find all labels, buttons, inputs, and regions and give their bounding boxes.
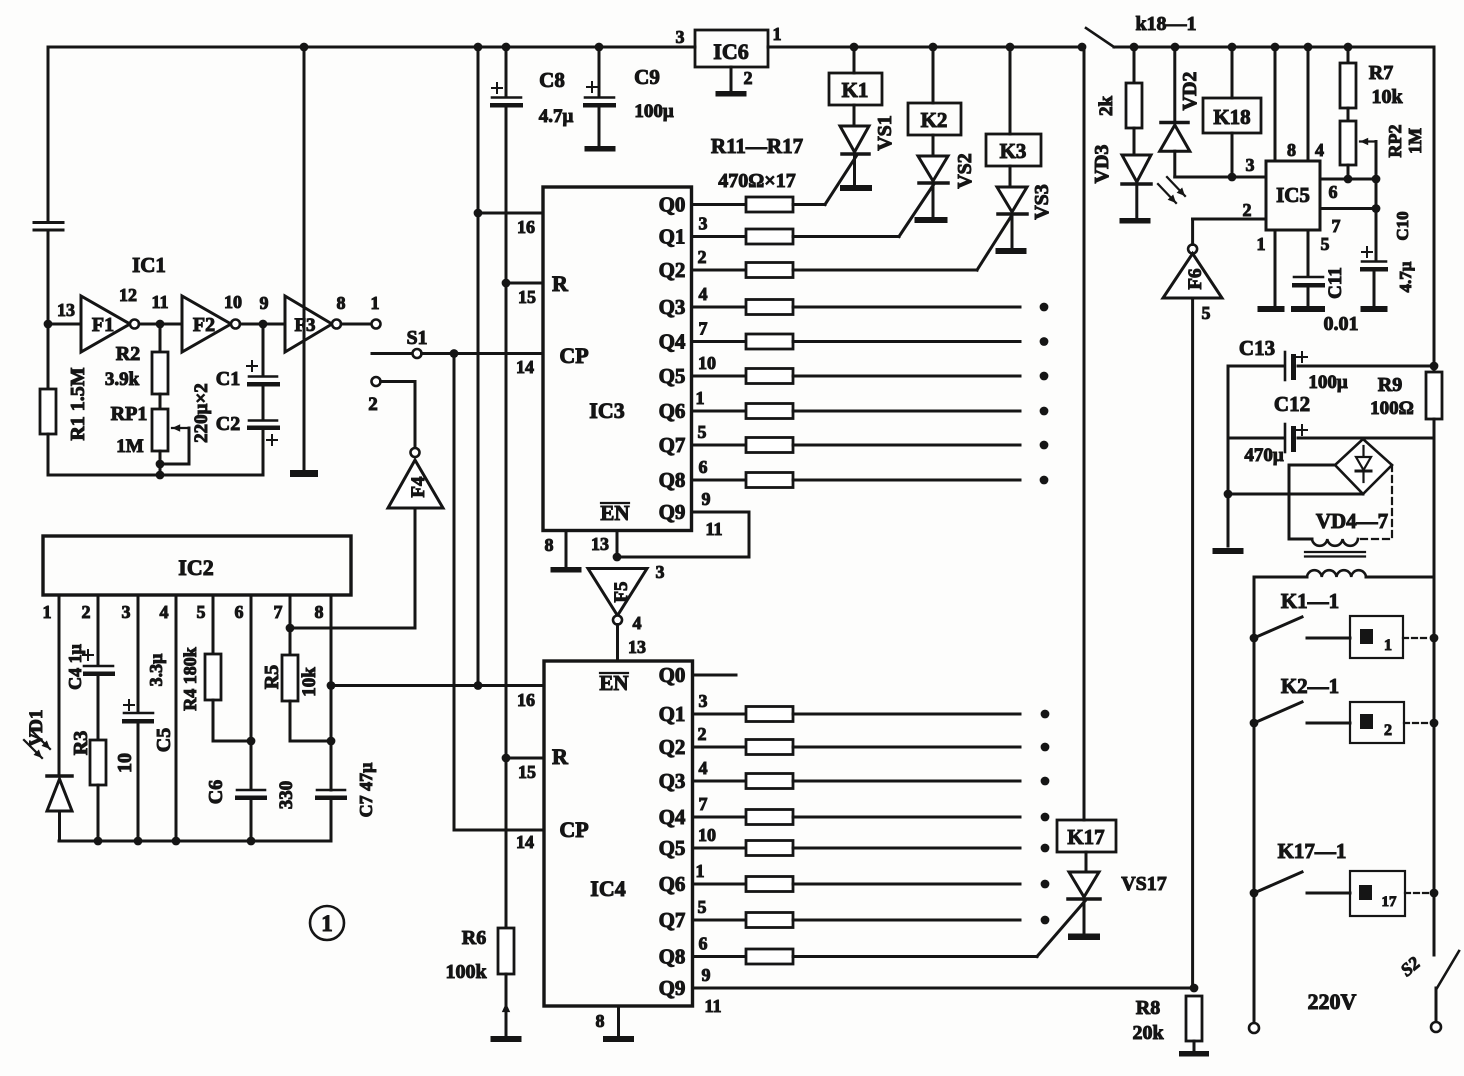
resistor output IC4 Q6	[746, 877, 793, 892]
svg-text:7: 7	[1332, 216, 1341, 236]
C13 plus	[1297, 356, 1307, 358]
wire reset line x506	[505, 108, 508, 929]
terminal mains left	[1249, 1023, 1259, 1033]
svg-text:4.7μ: 4.7μ	[1396, 261, 1415, 292]
wire IC3 pin16	[478, 212, 543, 215]
C2 plus	[267, 439, 277, 441]
svg-text:VS3: VS3	[1031, 184, 1053, 220]
capacitor C12	[1284, 424, 1287, 452]
node top bus switch k18-1 left	[1078, 43, 1087, 52]
svg-text:4: 4	[633, 613, 642, 633]
svg-text:2: 2	[698, 724, 707, 744]
capacitor C10	[1362, 260, 1386, 263]
svg-text:2: 2	[744, 68, 753, 88]
switch S1	[372, 352, 412, 355]
svg-text:C11: C11	[1325, 267, 1346, 299]
thyristor VS17	[1085, 852, 1088, 872]
terminal mains right	[1431, 1022, 1441, 1032]
wire IC2 pin8	[330, 595, 333, 790]
inverter F4	[411, 448, 420, 457]
svg-text:Q5: Q5	[659, 836, 686, 860]
C9 plus	[587, 86, 597, 88]
svg-text:C8: C8	[539, 68, 565, 92]
wire IC4 Q7 stub	[693, 919, 747, 922]
wire IC4 Q1 stub	[693, 713, 747, 716]
wire to R1	[47, 324, 50, 389]
load box 17	[1350, 871, 1405, 916]
svg-text:7: 7	[699, 794, 708, 814]
diode VD3	[1133, 128, 1136, 155]
terminal 1 of S1	[372, 320, 381, 329]
figure number 1	[310, 906, 344, 940]
wire IC4 Q4 long	[793, 816, 1020, 819]
resistor R17 output Q6	[746, 404, 793, 419]
svg-text:F6: F6	[1185, 268, 1206, 289]
node continuation dot Q1 IC4	[1041, 710, 1050, 719]
wire +V top bus left segment	[48, 46, 695, 49]
svg-text:330: 330	[276, 781, 297, 810]
svg-text:Q4: Q4	[659, 805, 686, 829]
svg-text:k18—1: k18—1	[1135, 13, 1196, 35]
node wiper pin6	[1372, 175, 1381, 184]
wire R8 ground	[1193, 1041, 1196, 1051]
svg-text:11: 11	[704, 996, 721, 1016]
terminal 2 of S1	[372, 377, 381, 386]
svg-text:Q2: Q2	[659, 735, 686, 759]
svg-text:13: 13	[591, 534, 609, 554]
svg-text:1: 1	[696, 861, 705, 881]
wire IC4 Q6 stub	[693, 883, 747, 886]
IC5 pin7 wire	[1320, 207, 1377, 210]
svg-text:14: 14	[516, 832, 534, 852]
svg-text:5: 5	[698, 897, 707, 917]
svg-text:1M: 1M	[116, 436, 144, 457]
svg-text:3: 3	[122, 602, 131, 622]
svg-text:VD4—7: VD4—7	[1316, 509, 1388, 533]
capacitor C9	[598, 47, 601, 97]
svg-text:6: 6	[699, 457, 708, 477]
node 9	[259, 320, 268, 329]
capacitor C11	[1294, 276, 1323, 279]
svg-text:1: 1	[321, 911, 333, 936]
wire terminal2 to F4	[381, 380, 416, 383]
node 11	[156, 320, 165, 329]
svg-text:470μ: 470μ	[1244, 445, 1284, 466]
wire R1 bottom	[47, 434, 50, 475]
wire IC3 Q4 long	[793, 340, 1020, 343]
wire C12	[1228, 437, 1283, 440]
svg-text:K1—1: K1—1	[1281, 589, 1339, 613]
svg-text:Q0: Q0	[659, 663, 686, 687]
resistor output IC4 Q4	[746, 810, 793, 825]
node continuation dot Q5 IC3	[1040, 372, 1049, 381]
node RP1 wiper join	[156, 460, 165, 469]
capacitor C6	[237, 789, 265, 792]
capacitor C8	[505, 47, 508, 97]
svg-text:Q3: Q3	[659, 769, 686, 793]
svg-text:5: 5	[1321, 234, 1330, 254]
svg-text:Q4: Q4	[659, 330, 686, 354]
load box 2	[1350, 702, 1404, 743]
wire IC2 pin7	[289, 595, 292, 655]
wire IC3 Q0 stub	[692, 203, 747, 206]
svg-text:F1: F1	[92, 314, 114, 336]
svg-text:10: 10	[698, 825, 716, 845]
node R4 join pin6	[247, 737, 256, 746]
wire +V top bus right segment	[768, 46, 1084, 49]
switch S2	[1437, 951, 1459, 988]
wire IC3 Q6 long	[793, 410, 1020, 413]
node pin7 F4 wire	[286, 624, 295, 633]
svg-text:Q8: Q8	[659, 945, 686, 969]
svg-text:2: 2	[368, 394, 378, 415]
svg-text:C6: C6	[205, 780, 227, 804]
svg-text:Q7: Q7	[659, 433, 686, 457]
wire oscillator bottom	[48, 474, 263, 477]
wire IC4 Q3 stub	[693, 780, 747, 783]
node continuation dot Q4 IC4	[1041, 813, 1050, 822]
RP1 wiper	[172, 427, 189, 429]
node reset IC3 pin15	[502, 279, 511, 288]
wire IC3 Q7 stub	[692, 444, 747, 447]
svg-text:16: 16	[517, 217, 535, 237]
wire IC3 Q6 stub	[692, 410, 747, 413]
svg-text:R2: R2	[116, 343, 140, 365]
svg-text:4.7μ: 4.7μ	[539, 106, 574, 127]
RP2 wiper arrow	[1360, 140, 1376, 142]
wire IC3 Q1 stub	[692, 235, 747, 238]
svg-text:S1: S1	[406, 327, 427, 349]
resistor output IC4 Q2	[746, 740, 793, 755]
wire IC2 pin2	[97, 595, 100, 665]
wire R6 to ground	[505, 974, 508, 1036]
IC6 pin 2 wire	[730, 67, 733, 91]
node top bus x599	[595, 43, 604, 52]
wire F1 out	[139, 323, 182, 326]
svg-text:K3: K3	[1000, 139, 1027, 163]
svg-text:Q7: Q7	[659, 908, 686, 932]
svg-text:12: 12	[119, 285, 137, 305]
svg-text:R5: R5	[261, 665, 283, 689]
wire IC3 Q7 long	[793, 444, 1020, 447]
node R5 join pin8	[327, 737, 336, 746]
svg-text:8: 8	[337, 293, 346, 313]
resistor R9	[1426, 372, 1442, 419]
svg-text:2: 2	[698, 247, 707, 267]
svg-text:13: 13	[57, 300, 75, 320]
svg-text:EN: EN	[600, 501, 629, 525]
ground VS1	[840, 185, 872, 191]
svg-text:10: 10	[698, 353, 716, 373]
wire IC3 pin13 stub	[616, 531, 619, 558]
C5 plus	[124, 704, 134, 706]
svg-text:10k: 10k	[1371, 86, 1403, 108]
IC5 pin5 wire	[1307, 230, 1310, 276]
wire F6 input	[1191, 298, 1194, 988]
svg-text:C13: C13	[1239, 336, 1275, 360]
node top bus x506	[502, 43, 511, 52]
node bus VD3 branch	[1130, 43, 1139, 52]
node F5 input junction	[613, 553, 622, 562]
ground VS2	[915, 217, 948, 223]
R6 bottom arrow	[505, 1003, 507, 1024]
ground R6	[491, 1036, 522, 1042]
node pin6 bus	[247, 837, 256, 846]
C12 plus	[1297, 429, 1307, 431]
svg-text:5: 5	[1202, 303, 1211, 323]
wire IC4 Q6 long	[793, 883, 1020, 886]
IC3 box	[543, 187, 692, 531]
wire bus to K17	[1083, 47, 1086, 820]
svg-text:6: 6	[699, 934, 708, 954]
switch k18-1 blade	[1086, 28, 1114, 47]
resistor R14 output Q3	[746, 300, 793, 315]
svg-text:IC3: IC3	[589, 398, 624, 423]
node bus IC5 pin8	[1271, 43, 1280, 52]
ground VS17	[1068, 934, 1100, 941]
svg-text:1M: 1M	[1405, 128, 1425, 154]
svg-text:3: 3	[699, 214, 708, 234]
ground IC5 pin1	[1258, 306, 1285, 312]
svg-text:9: 9	[702, 489, 711, 509]
IC5 pin4 wire	[1307, 47, 1310, 161]
wire bridge AC right dashed	[1358, 465, 1392, 539]
svg-text:K17: K17	[1067, 825, 1104, 849]
svg-text:3.9k: 3.9k	[105, 369, 140, 390]
wire IC4 Q2 stub	[693, 746, 747, 749]
wire IC4 Q2 long	[793, 746, 1020, 749]
node wiper pin7	[1372, 204, 1381, 213]
svg-text:20k: 20k	[1132, 1022, 1164, 1044]
wire primary left	[1254, 576, 1307, 579]
wire IC4 Q5 stub	[693, 847, 747, 850]
diode VD2	[1173, 47, 1176, 121]
svg-text:5: 5	[197, 602, 206, 622]
svg-text:R: R	[552, 744, 569, 769]
svg-text:Q1: Q1	[659, 225, 686, 249]
IC6 voltage regulator	[695, 30, 768, 67]
node continuation dot Q6 IC4	[1041, 880, 1050, 889]
svg-text:Q6: Q6	[659, 399, 686, 423]
node S1 to CP line	[450, 349, 459, 358]
wire IC4 Q5 long	[793, 847, 1020, 850]
capacitor C1	[262, 324, 265, 376]
svg-text:K2: K2	[921, 108, 948, 132]
svg-text:CP: CP	[559, 343, 588, 368]
node F1 input	[44, 320, 53, 329]
wire F5 out to IC4 pin13	[616, 625, 619, 662]
wire bridge AC left	[1289, 464, 1335, 467]
svg-text:IC6: IC6	[713, 39, 748, 64]
svg-text:4: 4	[699, 758, 708, 778]
wire IC4 Q8 stub	[693, 955, 747, 958]
capacitor C5	[124, 712, 153, 715]
resistor output IC4 Q8	[746, 949, 793, 964]
node bridge minus	[1224, 490, 1233, 499]
svg-text:Q8: Q8	[659, 468, 686, 492]
wire F3 supply vertical	[303, 47, 306, 470]
wire IC4 Q1 long	[793, 713, 1020, 716]
svg-text:Q0: Q0	[659, 193, 686, 217]
wire C2 bottom	[262, 430, 265, 475]
node bus IC5 pin4	[1304, 43, 1313, 52]
svg-text:2: 2	[1243, 200, 1252, 220]
resistor R2	[159, 324, 162, 352]
relay K17	[1057, 820, 1116, 852]
wire IC3 Q3 long	[793, 306, 1020, 309]
wire bridge minus	[1228, 493, 1363, 496]
ground R8	[1179, 1051, 1209, 1057]
svg-text:100Ω: 100Ω	[1370, 398, 1414, 419]
node pin8 IC2 Vdd	[327, 681, 336, 690]
wire IC3 pin8 stub	[565, 531, 568, 568]
wire RP1 bottom	[159, 451, 162, 475]
svg-text:2: 2	[82, 602, 91, 622]
svg-text:Q9: Q9	[659, 976, 686, 1000]
capacitor C2	[262, 386, 265, 420]
node continuation dot Q4 IC3	[1040, 337, 1049, 346]
resistor R5	[282, 655, 298, 701]
ground IC6	[716, 91, 747, 97]
capacitor C4	[84, 665, 113, 668]
svg-text:RP2: RP2	[1385, 125, 1405, 158]
resistor 2k	[1133, 47, 1136, 83]
svg-text:C12: C12	[1274, 392, 1310, 416]
C10 plus	[1362, 251, 1372, 253]
svg-text:IC4: IC4	[590, 876, 625, 901]
svg-text:K2—1: K2—1	[1281, 674, 1339, 698]
ground C9	[585, 146, 616, 152]
load box 1	[1350, 616, 1403, 658]
svg-text:3: 3	[676, 27, 685, 47]
node pin4 bus	[172, 837, 181, 846]
node K18 join	[1228, 173, 1237, 182]
svg-text:10: 10	[114, 753, 136, 773]
svg-text:10: 10	[224, 292, 242, 312]
svg-text:C1: C1	[216, 368, 240, 390]
wire IC3 Q5 stub	[692, 375, 747, 378]
wire IC3 Q2 stub	[692, 269, 747, 272]
resistor output IC4 Q5	[746, 841, 793, 856]
svg-text:VD1: VD1	[26, 710, 47, 747]
transformer primary	[1307, 570, 1366, 577]
svg-text:11: 11	[705, 519, 722, 539]
svg-text:VD2: VD2	[1179, 72, 1201, 111]
resistor R7	[1347, 47, 1350, 63]
svg-text:3: 3	[699, 691, 708, 711]
wire VD2 to IC5 pin3	[1175, 176, 1266, 179]
wire left feedback vertical bottom	[47, 232, 50, 324]
node bus R7	[1344, 43, 1353, 52]
inverter F2	[182, 296, 231, 352]
thyristor VS2	[932, 135, 935, 156]
wire S1 to IC4 CP vertical	[453, 354, 456, 831]
svg-text:RP1: RP1	[111, 403, 148, 425]
node top bus at F3 supply	[300, 43, 309, 52]
svg-text:F4: F4	[408, 476, 429, 498]
relay K2	[932, 47, 935, 103]
svg-text:100k: 100k	[445, 961, 487, 983]
svg-text:4: 4	[699, 284, 708, 304]
wire IC4 pin8 stub	[617, 1006, 620, 1036]
resistor output IC4 Q7	[746, 913, 793, 928]
node top bus K1	[850, 43, 859, 52]
resistor R6	[498, 928, 514, 974]
wire IC3 Q5 long	[793, 375, 1020, 378]
svg-text:220μ×2: 220μ×2	[191, 383, 212, 443]
ground PSU	[1213, 548, 1244, 554]
node continuation dot Q6 IC3	[1040, 407, 1049, 416]
svg-text:K18: K18	[1213, 105, 1250, 129]
wire right rail upper	[1433, 47, 1436, 372]
svg-text:R9: R9	[1378, 374, 1402, 396]
svg-text:4: 4	[1315, 140, 1324, 160]
svg-text:VD3: VD3	[1091, 145, 1113, 184]
ground VS3	[996, 248, 1027, 254]
transformer core	[1305, 551, 1365, 553]
svg-text:R3: R3	[70, 731, 92, 755]
node x478 Vdd join	[474, 681, 483, 690]
svg-text:1: 1	[773, 24, 782, 44]
svg-text:C2: C2	[216, 413, 240, 435]
wire IC4 Q0 stub	[693, 674, 737, 677]
wire IC2 pin4	[175, 595, 178, 841]
svg-text:1: 1	[371, 293, 380, 313]
svg-text:7: 7	[699, 319, 708, 339]
ground IC3 pin8	[551, 567, 582, 573]
bridge internal diode	[1362, 446, 1364, 457]
svg-text:10k: 10k	[299, 667, 320, 697]
svg-text:11: 11	[151, 292, 168, 312]
svg-text:9: 9	[702, 965, 711, 985]
node Q9 R8 F6	[1190, 984, 1199, 993]
resistor R16 output Q5	[746, 369, 793, 384]
wire IC3 Q8 stub	[692, 479, 747, 482]
relay K18	[1231, 47, 1234, 98]
wire F3 out	[341, 323, 372, 326]
node top bus x478	[474, 43, 483, 52]
svg-text:K1: K1	[842, 78, 869, 102]
wire IC3 Q9 feedback	[617, 512, 749, 557]
svg-text:1: 1	[696, 388, 705, 408]
wire IC2 pin6	[250, 595, 253, 789]
ground C10	[1361, 306, 1388, 312]
resistor R15 output Q4	[746, 334, 793, 349]
capacitor C7	[317, 789, 345, 792]
svg-text:8: 8	[545, 535, 554, 555]
IC5 pin6 wire	[1320, 178, 1377, 181]
svg-text:7: 7	[274, 602, 283, 622]
ground C11	[1291, 306, 1325, 312]
wire IC2 bottom bus	[59, 840, 331, 843]
node continuation dot Q3 IC4	[1041, 777, 1050, 786]
wire Q8 IC4 to VS17 gate	[793, 955, 1037, 958]
node continuation dot Q2 IC4	[1041, 743, 1050, 752]
svg-text:17: 17	[1382, 894, 1398, 910]
wire left feedback vertical top	[47, 47, 50, 221]
svg-text:Q2: Q2	[659, 258, 686, 282]
photodiode VD1	[47, 774, 72, 778]
svg-text:Q5: Q5	[659, 364, 686, 388]
IC2 box	[43, 536, 351, 595]
wire IC2 pin5	[212, 595, 215, 654]
wire Q9 IC4 long	[693, 987, 1195, 990]
svg-text:F2: F2	[193, 314, 215, 336]
svg-text:Q9: Q9	[659, 500, 686, 524]
contact K17-1	[1250, 889, 1259, 898]
svg-text:15: 15	[518, 287, 536, 307]
svg-text:0.01: 0.01	[1324, 313, 1359, 335]
